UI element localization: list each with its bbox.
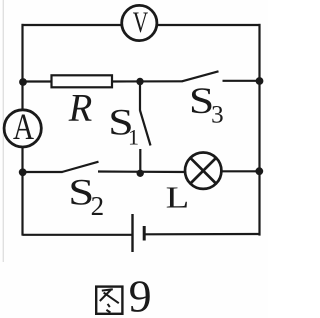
caption character 图 inner stroke top bar xyxy=(102,289,113,290)
node junction row3 left xyxy=(19,168,27,176)
battery long plate xyxy=(131,214,133,252)
svg-text:2: 2 xyxy=(91,191,105,221)
svg-text:R: R xyxy=(68,87,93,130)
node junction row3 right xyxy=(255,167,263,175)
svg-text:3: 3 xyxy=(211,102,224,129)
wire bottom right segment xyxy=(144,233,260,236)
wire top left segment xyxy=(22,24,122,26)
node junction row2 left xyxy=(19,78,27,86)
battery short plate xyxy=(143,226,146,241)
wire top right segment xyxy=(157,24,261,26)
lamp L circle xyxy=(185,153,221,189)
svg-text:V: V xyxy=(133,7,148,39)
switch S1 blade xyxy=(140,110,151,146)
switch S3 right contact wire xyxy=(223,80,261,82)
wire row3 right lead xyxy=(221,170,261,172)
scan edge artifact line xyxy=(2,0,4,262)
node junction row3 middle xyxy=(137,170,144,177)
lamp L cross stroke 2 xyxy=(190,158,216,184)
svg-text:A: A xyxy=(13,107,34,148)
caption character 图 inner stroke right falling xyxy=(104,293,119,304)
svg-text:9: 9 xyxy=(129,270,152,318)
caption character 图 inner stroke left falling xyxy=(100,289,112,301)
svg-text:1: 1 xyxy=(128,125,139,150)
switch S2 right contact wire xyxy=(98,170,186,173)
switch S1 bottom lead xyxy=(139,149,141,174)
switch S1 top lead xyxy=(139,82,141,111)
caption character 图 inner dot 1 xyxy=(108,304,110,307)
svg-text:L: L xyxy=(166,180,190,215)
wire row2 middle xyxy=(112,80,183,82)
wire left rail lower xyxy=(21,147,23,236)
resistor R box xyxy=(52,75,113,87)
voltmeter U=V circle xyxy=(122,5,157,40)
wire row3 left lead xyxy=(22,171,63,173)
node junction row2 middle xyxy=(136,78,143,85)
lamp L cross stroke 1 xyxy=(190,158,216,184)
ammeter A circle xyxy=(4,110,41,147)
wire bottom left segment xyxy=(23,234,133,236)
wire row2 left lead xyxy=(22,80,53,82)
wire right rail xyxy=(258,24,260,236)
switch S3 blade xyxy=(182,71,219,81)
caption character 图 inner dot 2 xyxy=(106,310,110,313)
switch S2 blade xyxy=(62,162,99,172)
node junction row2 right xyxy=(256,77,264,85)
caption character 图 box xyxy=(96,287,122,314)
wire left rail upper xyxy=(21,24,23,110)
